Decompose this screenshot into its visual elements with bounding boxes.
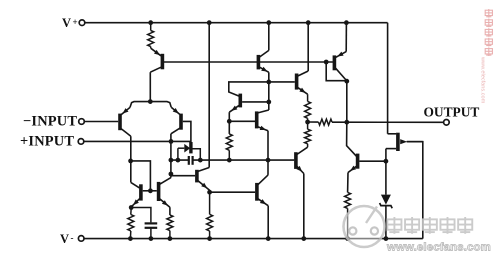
wire Q10 emitter drop (347, 173, 349, 193)
wire Q13 collector to V+ rail (208, 23, 210, 168)
transistor Q9 (296, 152, 304, 173)
wire Q8c drop to output line (346, 81, 348, 122)
V- terminal (60, 232, 84, 246)
resistor R8 (167, 215, 173, 239)
capacitor C2 (145, 223, 158, 238)
transistor Q8 (334, 52, 346, 81)
transistor Q5 (229, 94, 268, 113)
resistor R4 (305, 122, 311, 147)
node B (384, 159, 389, 164)
node D1 cathode-bus (198, 158, 203, 163)
node Q8c-output line (344, 120, 349, 125)
node Q9e-rail (301, 236, 306, 241)
resistor R6 (207, 192, 213, 238)
wire Q13 base (171, 175, 195, 177)
wire output line left (308, 121, 319, 123)
node R7-rail (128, 236, 133, 241)
V- rail (84, 238, 423, 240)
wire node A vertical (268, 82, 270, 110)
transistor Q7 (269, 71, 308, 94)
node y62-branch (324, 60, 329, 65)
node mirror center (148, 188, 153, 193)
wire rail drop to Q11 collector (388, 133, 397, 135)
wire bus main segment (193, 159, 294, 161)
+INPUT terminal (20, 134, 84, 150)
wire D1 anode branch (177, 148, 179, 160)
wire R4 to Q9 collector (297, 147, 308, 154)
wire Q2 collector drop (130, 136, 132, 182)
wire Q13e to Q12 base (210, 191, 256, 193)
node R6-rail (207, 236, 212, 241)
node R3-output line (305, 120, 310, 125)
wire Q8 emitter to rail (345, 23, 347, 52)
wire mirror link (143, 190, 157, 192)
wire +input line (84, 140, 191, 142)
svg-text:+: + (73, 17, 78, 27)
transistor Q11 (386, 133, 423, 151)
svg-text:−INPUT: −INPUT (23, 113, 77, 129)
-INPUT terminal (23, 113, 84, 129)
transistor Q12 (257, 175, 268, 206)
node rail-Q4 (266, 20, 271, 25)
resistor R2 (226, 134, 232, 160)
transistor Q3 (171, 107, 181, 134)
wire Q5 emitter drop (228, 112, 230, 134)
node C2-rail (149, 236, 154, 241)
wire Q4 emitter to node A (268, 72, 270, 82)
capacitor C1 (189, 156, 193, 165)
diode D1 (178, 142, 191, 153)
svg-text:V: V (60, 232, 69, 246)
node R9-rail (345, 236, 350, 241)
node rail-Q13 (207, 20, 212, 25)
wire Q15e to C2 (131, 208, 151, 223)
wire node A to Q5 collector (229, 82, 269, 96)
wire Q7 collector to rail (307, 23, 309, 71)
node Q12e-rail (266, 236, 271, 241)
zener diode DZ (380, 195, 393, 239)
node rail-R1 (148, 20, 153, 25)
watermark text dianzifashaoyou (387, 217, 472, 234)
svg-text:V: V (62, 16, 71, 30)
transistor Q4 (258, 50, 268, 72)
wire Q9 emitter drop (303, 174, 305, 239)
wire Q6 emitter drop (267, 131, 269, 175)
wire -input to Q2 base (84, 121, 118, 123)
wire mirror bias line y62 (163, 61, 333, 63)
wire Q8 base-collector strap (326, 62, 347, 81)
wire Q1 collector to diff-pair tail (149, 72, 151, 101)
wire output-stage right edge (407, 142, 423, 239)
transistor Q6 (229, 110, 268, 131)
svg-text:-: - (71, 233, 74, 243)
transistor Q13 (197, 168, 210, 191)
V+ rail (85, 22, 388, 24)
node tail junction (148, 99, 153, 104)
wire output line to Q10 collector (347, 122, 357, 156)
node D1 anode-bus (176, 158, 181, 163)
node Q15 emitter junction (129, 205, 134, 210)
node Q3c-Q13 junction (169, 172, 174, 177)
node Q6e-bus (266, 158, 271, 163)
svg-text:+INPUT: +INPUT (20, 134, 74, 150)
wire D1 cathode branch (192, 149, 200, 160)
wire Q4 collector to rail (268, 23, 270, 51)
watermark logo circle (344, 206, 385, 247)
resistor R9 (345, 192, 351, 238)
wire Q3 base (183, 121, 191, 142)
wire diff tail (130, 102, 171, 108)
resistor R1 (148, 23, 154, 49)
wire output line right (332, 121, 444, 123)
transistor Q1 (150, 48, 162, 72)
transistor Q2 (120, 107, 131, 136)
wire Q12 emitter drop (267, 206, 269, 239)
watermark red vertical (480, 9, 493, 104)
OUTPUT terminal (424, 105, 480, 126)
node R8-rail (168, 236, 173, 241)
node rail-Q7 (306, 20, 311, 25)
node Q13 emitter junction (207, 190, 212, 195)
resistor R5 (319, 119, 333, 125)
wire mirror tap (131, 161, 151, 191)
wire Q3 collector drop (170, 134, 172, 178)
node Q2c-mirror tap (128, 159, 133, 164)
node R2-bus (227, 158, 232, 163)
svg-text:OUTPUT: OUTPUT (424, 105, 480, 120)
node DZ-rail (384, 236, 389, 241)
resistor R3 (305, 94, 311, 122)
wire Q2c to Q15 collector (131, 182, 140, 188)
transistor Q10 (348, 154, 386, 173)
svg-text:www.elecfans.com: www.elecfans.com (480, 56, 486, 104)
node +input junction (169, 139, 174, 144)
node Q3c-bus junction (169, 158, 174, 163)
V+ terminal (62, 16, 85, 30)
wire Q16 emitter drop (169, 207, 171, 215)
node rail-Q8 (344, 20, 349, 25)
svg-text:www.elecfans.com: www.elecfans.com (386, 242, 491, 254)
node Q8 collector (344, 79, 349, 84)
wire bus left segment (171, 159, 188, 161)
transistor Q16 (159, 178, 171, 208)
node A (266, 80, 271, 85)
wire Q11 base drop (385, 149, 387, 195)
resistor R7 (128, 208, 134, 239)
wire V+ rail right drop to Q11 (387, 23, 389, 134)
node Q5e-Q6 base (227, 119, 232, 124)
node A-Q5 base (266, 100, 271, 105)
transistor Q15 (131, 184, 141, 207)
